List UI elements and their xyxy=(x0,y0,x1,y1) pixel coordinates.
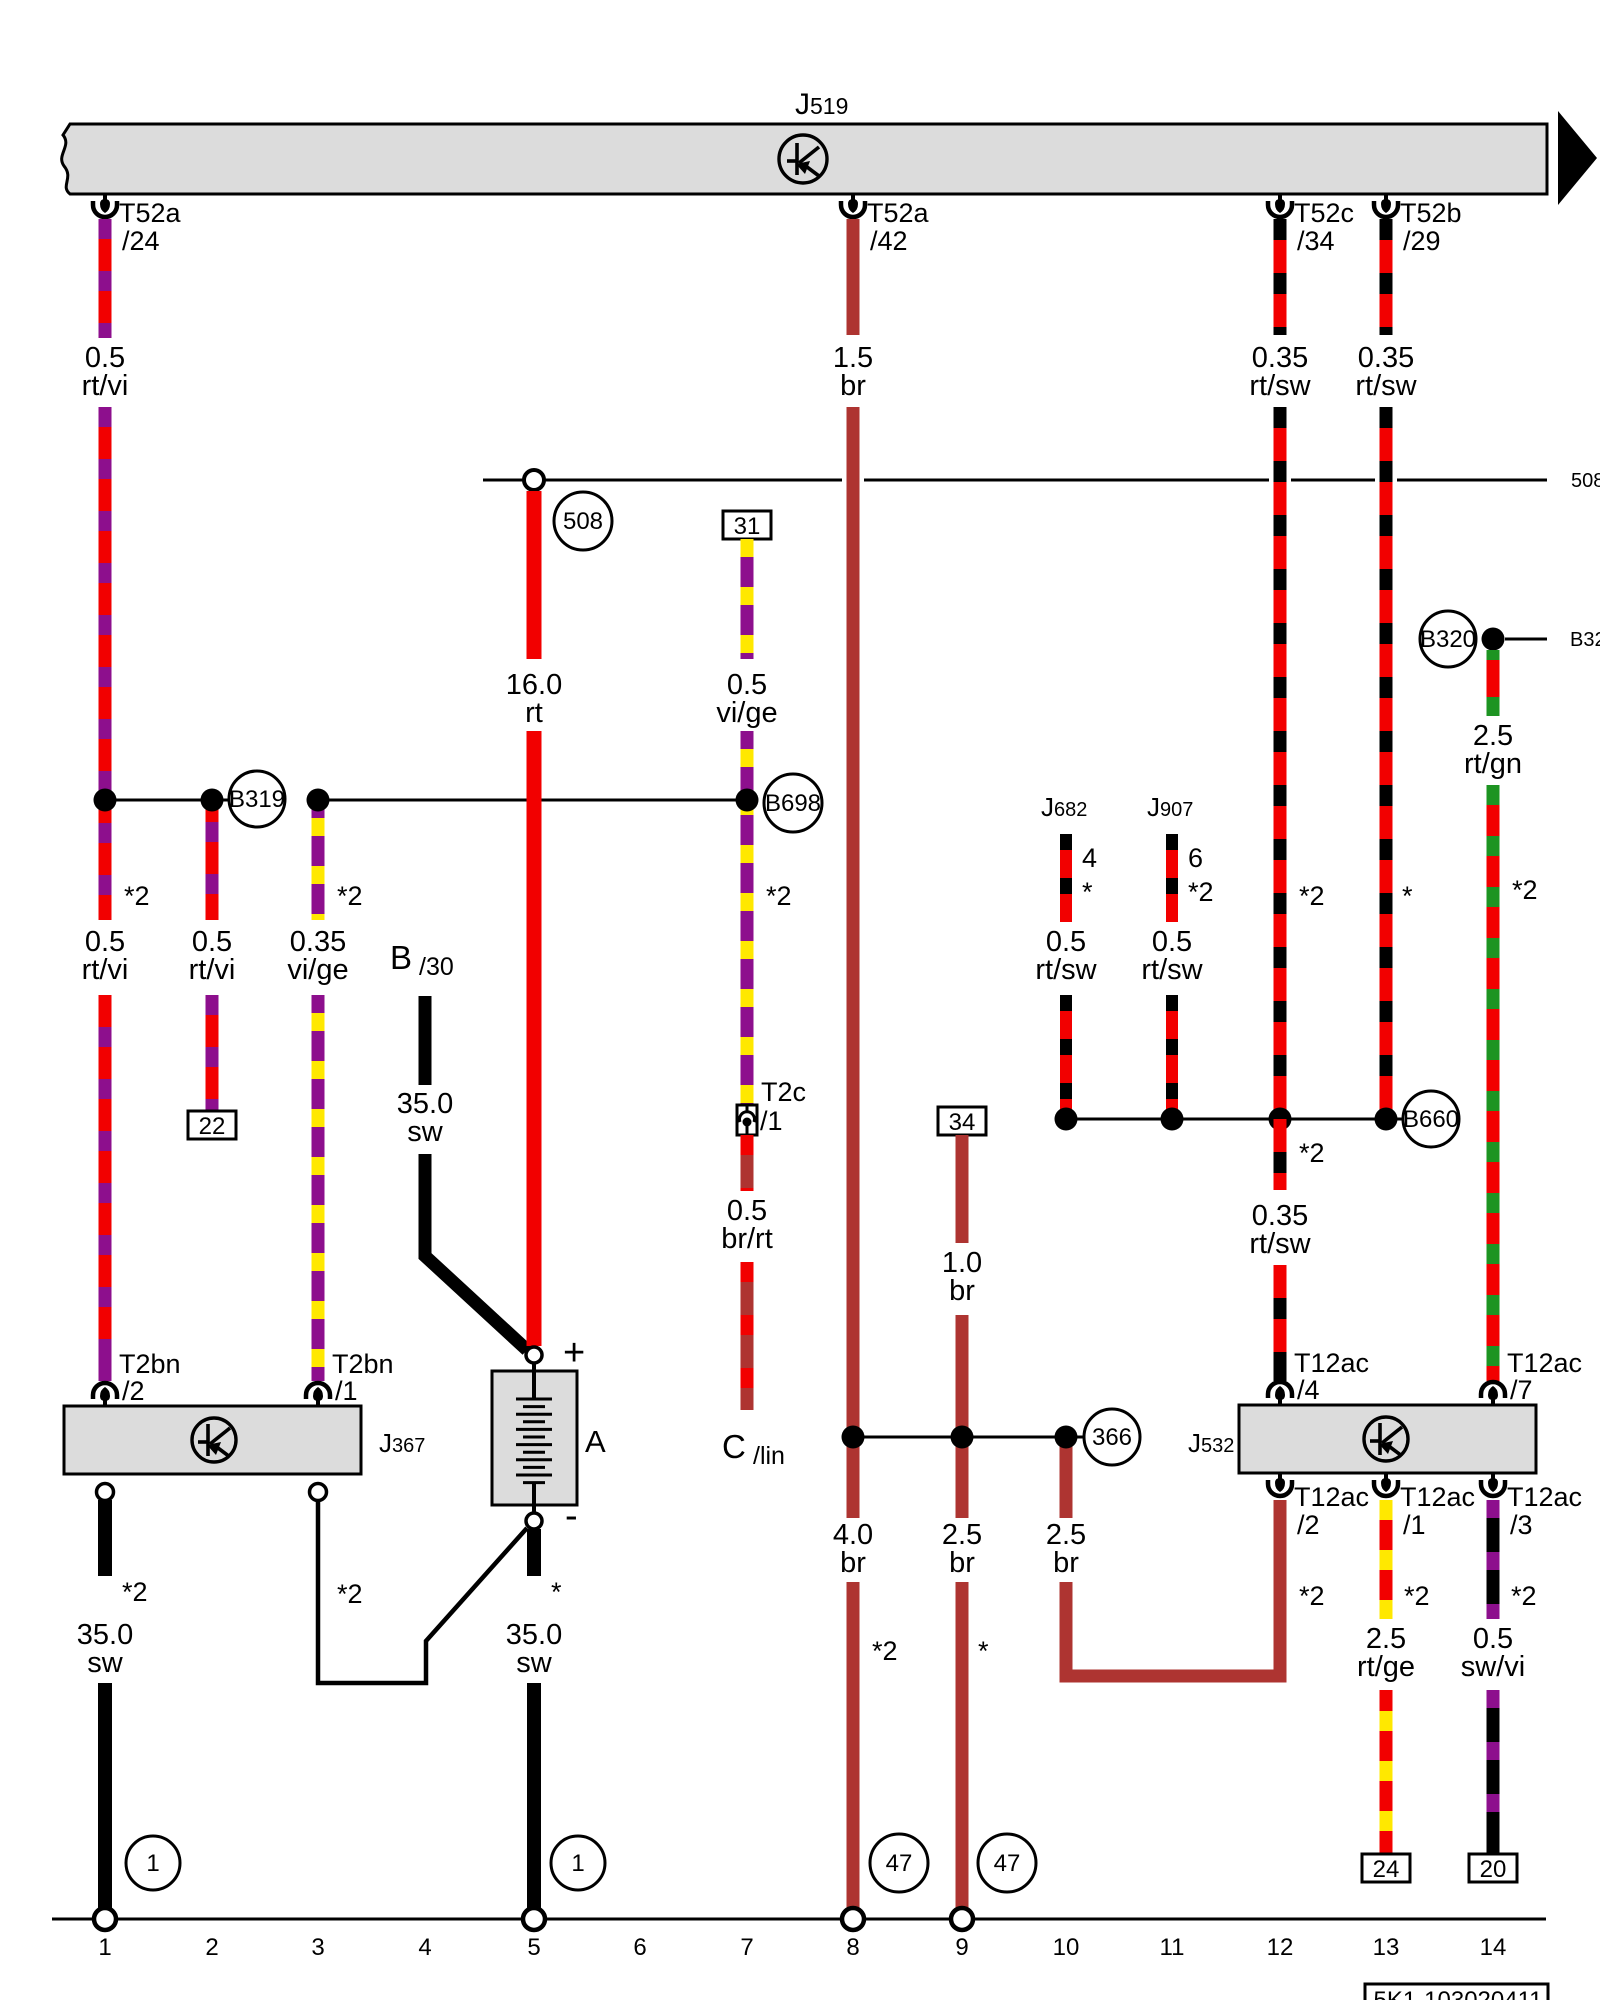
svg-text:31: 31 xyxy=(734,513,761,540)
wire rt/sw J907 b xyxy=(1166,995,1178,1119)
wire rt 16.0 col5 b xyxy=(527,731,542,1346)
svg-text:366: 366 xyxy=(1092,1424,1132,1451)
ground label circle 47 (b) xyxy=(978,1834,1036,1892)
svg-text:*2: *2 xyxy=(122,1577,148,1607)
wire br col8 c xyxy=(847,1582,860,1908)
svg-text:508: 508 xyxy=(1571,470,1600,492)
wire rt/ge col13 a xyxy=(1380,1500,1393,1619)
node B660 junction col12 junction dot xyxy=(1269,1108,1292,1131)
svg-text:*: * xyxy=(551,1577,562,1607)
svg-text:rt/vi: rt/vi xyxy=(82,954,129,986)
battery A xyxy=(492,1332,606,1537)
connector T2bn/2 T2bn/2 xyxy=(93,1349,181,1406)
wire rt/sw J682 a xyxy=(1060,834,1072,922)
ground label circle 1 (mid) xyxy=(551,1836,605,1890)
wire sw col1 below J367 a xyxy=(98,1500,112,1576)
ground rail xyxy=(52,1918,1546,1921)
wire sw/vi col14 a xyxy=(1487,1500,1500,1619)
terminal box 20 xyxy=(1469,1854,1517,1883)
wire size/colour label 2.5 rt/gn xyxy=(1464,720,1522,780)
ground label circle 1 (left) xyxy=(126,1836,180,1890)
svg-text:/29: /29 xyxy=(1403,226,1441,256)
svg-text:sw: sw xyxy=(516,1647,553,1679)
svg-text:rt/sw: rt/sw xyxy=(1035,954,1097,986)
terminal box 24 xyxy=(1362,1854,1410,1883)
svg-text:/34: /34 xyxy=(1297,226,1335,256)
node label circle B319 xyxy=(229,771,285,827)
svg-text:*2: *2 xyxy=(1404,1581,1430,1611)
wire size/colour label 35.0 sw xyxy=(397,1088,453,1148)
wire rt/sw J682 b xyxy=(1060,995,1072,1119)
wire rt/vi col2 a xyxy=(206,800,219,920)
node 366 junction col8 junction dot xyxy=(842,1426,865,1449)
svg-text:1: 1 xyxy=(571,1850,584,1877)
connector T12ac/1 T12ac/1 xyxy=(1374,1473,1475,1540)
node B terminal /30 label xyxy=(390,939,454,981)
svg-text:10: 10 xyxy=(1053,1934,1080,1961)
svg-text:A: A xyxy=(585,1424,606,1459)
svg-text:T12ac: T12ac xyxy=(1400,1482,1475,1512)
wire sw col5 below battery a xyxy=(527,1529,541,1576)
svg-text:24: 24 xyxy=(1373,1856,1400,1883)
svg-text:4: 4 xyxy=(418,1934,431,1961)
svg-text:1: 1 xyxy=(146,1850,159,1877)
node label circle B698 xyxy=(764,774,822,832)
terminal box 34 xyxy=(938,1107,986,1136)
svg-text:13: 13 xyxy=(1373,1934,1400,1961)
wire vi/ge col3 b xyxy=(312,995,325,1381)
svg-text:T52b: T52b xyxy=(1400,198,1462,228)
svg-text:T12ac: T12ac xyxy=(1294,1482,1369,1512)
svg-text:22: 22 xyxy=(199,1113,226,1140)
svg-text:/lin: /lin xyxy=(753,1442,785,1470)
svg-text:7: 7 xyxy=(740,1934,753,1961)
svg-text:/1: /1 xyxy=(335,1376,358,1406)
svg-text:rt/vi: rt/vi xyxy=(189,954,236,986)
wire rt/vi col1 c end stripe xyxy=(99,1359,112,1381)
wire size/colour label 1.0 br xyxy=(942,1247,982,1307)
wire rt/vi col1 b xyxy=(99,407,112,920)
svg-text:11: 11 xyxy=(1160,1934,1185,1961)
svg-text:T52a: T52a xyxy=(867,198,930,228)
svg-text:rt: rt xyxy=(525,697,543,729)
node B698 junction junction dot xyxy=(736,789,759,812)
svg-text:/4: /4 xyxy=(1297,1375,1320,1405)
connector T12ac/7 T12ac/7 xyxy=(1481,1348,1582,1405)
bus continuation arrow xyxy=(1558,111,1597,205)
wire size/colour label 0.35 vi/ge xyxy=(287,926,348,986)
svg-text:47: 47 xyxy=(994,1850,1021,1877)
node line 366 xyxy=(853,1436,1084,1439)
wire sw col4 a (35.0 B/30) xyxy=(419,996,432,1085)
J367 bottom pin (right) xyxy=(310,1484,327,1501)
connector T52b/29 T52b/29 xyxy=(1374,194,1462,256)
svg-text:14: 14 xyxy=(1480,1934,1507,1961)
svg-text:B320: B320 xyxy=(1570,629,1600,651)
svg-text:rt/sw: rt/sw xyxy=(1355,370,1417,402)
node C terminal /lin label xyxy=(722,1428,785,1470)
svg-text:6: 6 xyxy=(633,1934,646,1961)
svg-text:9: 9 xyxy=(955,1934,968,1961)
ground point 1 xyxy=(94,1908,116,1930)
svg-text:/24: /24 xyxy=(122,226,160,256)
wire br col9 b xyxy=(956,1315,969,1518)
connector T12ac/3 T12ac/3 xyxy=(1481,1473,1582,1540)
svg-text:T2c: T2c xyxy=(761,1077,806,1107)
svg-text:T52c: T52c xyxy=(1294,198,1354,228)
wire size/colour label 2.5 br xyxy=(1046,1519,1086,1579)
node B320 junction junction dot xyxy=(1482,628,1505,651)
svg-text:br/rt: br/rt xyxy=(721,1223,773,1255)
svg-text:-: - xyxy=(565,1495,578,1537)
wire br col9 c xyxy=(956,1582,969,1908)
wire vi/ge col7 a xyxy=(741,539,754,659)
svg-text:br: br xyxy=(1053,1547,1079,1579)
svg-text:sw/vi: sw/vi xyxy=(1461,1651,1525,1683)
svg-text:*2: *2 xyxy=(766,881,792,911)
wire br col8 a (1.5) xyxy=(847,219,860,335)
svg-text:/7: /7 xyxy=(1510,1375,1533,1405)
wire sw col4 b with bend to battery positive xyxy=(425,1154,527,1350)
svg-text:sw: sw xyxy=(87,1647,124,1679)
wire sw col1 below J367 b xyxy=(98,1683,112,1908)
J367 bottom pin (left) xyxy=(97,1484,114,1501)
node B319 tap col1 junction dot xyxy=(94,789,117,812)
wire size/colour label 0.5 rt/vi xyxy=(82,342,129,402)
svg-text:rt/sw: rt/sw xyxy=(1249,1228,1311,1260)
svg-text:/3: /3 xyxy=(1510,1510,1533,1540)
inline connector T2c/1 xyxy=(737,1077,806,1136)
svg-text:*2: *2 xyxy=(1188,877,1214,907)
connector T52a/24 T52a/24 xyxy=(93,194,182,256)
wire sw/vi col14 b xyxy=(1487,1690,1500,1854)
svg-text:*2: *2 xyxy=(872,1636,898,1666)
svg-text:br: br xyxy=(840,1547,866,1579)
component J532 (onboard supply control module) xyxy=(1188,1405,1536,1473)
node line B660 xyxy=(1066,1118,1403,1121)
wire br col10 b L-bend to J532 xyxy=(1066,1500,1280,1676)
svg-text:T52a: T52a xyxy=(119,198,182,228)
svg-text:T12ac: T12ac xyxy=(1507,1482,1582,1512)
wire rt/sw col12 d xyxy=(1274,1265,1287,1381)
svg-text:4: 4 xyxy=(1082,843,1097,873)
node B660 tap col10 junction dot xyxy=(1055,1108,1078,1131)
wire size/colour label 0.5 rt/vi xyxy=(82,926,129,986)
wire size/colour label 0.5 rt/vi xyxy=(189,926,236,986)
node label circle 508 xyxy=(554,492,612,550)
wire size/colour label 35.0 sw xyxy=(77,1619,133,1679)
node label circle 366 xyxy=(1084,1409,1140,1465)
bus bar J519 (vehicle electrical system control module) xyxy=(62,88,1547,194)
svg-text:*2: *2 xyxy=(1299,1138,1325,1168)
node B660 tap col11 junction dot xyxy=(1161,1108,1184,1131)
wire size/colour label 0.35 rt/sw xyxy=(1249,1200,1311,1260)
svg-text:20: 20 xyxy=(1480,1856,1507,1883)
wire sw/vi col14 b end stripe xyxy=(1487,1836,1500,1854)
svg-text:rt/sw: rt/sw xyxy=(1249,370,1311,402)
ground point 1b xyxy=(523,1908,545,1930)
wire rt/gn col14 b xyxy=(1487,785,1500,1381)
svg-text:/2: /2 xyxy=(1297,1510,1320,1540)
svg-text:/1: /1 xyxy=(760,1106,783,1136)
svg-text:B660: B660 xyxy=(1403,1106,1459,1133)
wire size/colour label 2.5 br xyxy=(942,1519,982,1579)
svg-text:*2: *2 xyxy=(337,1579,363,1609)
connector T52c/34 T52c/34 xyxy=(1268,194,1354,256)
wire br/rt col7 a xyxy=(741,1135,754,1191)
svg-text:vi/ge: vi/ge xyxy=(716,697,777,729)
svg-text:47: 47 xyxy=(886,1850,913,1877)
wire rt/sw col12 c xyxy=(1274,1119,1287,1190)
svg-text:*: * xyxy=(1402,881,1413,911)
svg-text:J519: J519 xyxy=(795,88,848,121)
node line B319 xyxy=(105,799,229,802)
node line B698 xyxy=(318,799,747,802)
svg-text:rt/gn: rt/gn xyxy=(1464,748,1522,780)
svg-text:*2: *2 xyxy=(337,881,363,911)
node B660 junction col13 junction dot xyxy=(1375,1108,1398,1131)
svg-text:*2: *2 xyxy=(1512,875,1538,905)
net 508 reference line xyxy=(483,470,1600,492)
svg-text:*: * xyxy=(978,1636,989,1666)
wire rt/vi col2 b xyxy=(206,995,219,1111)
connector T12ac/4 T12ac/4 xyxy=(1268,1348,1369,1405)
wire rt/sw col12 d end stripe xyxy=(1274,1355,1287,1381)
wire size/colour label 0.35 rt/sw xyxy=(1249,342,1311,402)
node B319 tap col2 junction dot xyxy=(201,789,224,812)
node B698 tap col3 junction dot xyxy=(307,789,330,812)
svg-text:br: br xyxy=(949,1275,975,1307)
wire br col8 b xyxy=(847,407,860,1518)
wire rt/gn col14 a xyxy=(1487,650,1500,716)
svg-text:*: * xyxy=(1082,877,1093,907)
component J367 (battery monitoring control module) xyxy=(64,1406,425,1474)
svg-text:*2: *2 xyxy=(124,881,150,911)
svg-text:br: br xyxy=(840,370,866,402)
wire size/colour label 0.5 rt/sw xyxy=(1141,926,1203,986)
svg-text:B: B xyxy=(390,939,412,976)
svg-text:T12ac: T12ac xyxy=(1507,1348,1582,1378)
svg-text:8: 8 xyxy=(846,1934,859,1961)
connector T52a/42 T52a/42 xyxy=(841,194,930,256)
wire rt/vi col1 a xyxy=(99,219,112,338)
sense wire J367 to battery negative xyxy=(318,1500,527,1683)
wire br col9 a (1.0) xyxy=(956,1135,969,1243)
wire rt/ge col13 b xyxy=(1380,1690,1393,1854)
svg-text:/1: /1 xyxy=(1403,1510,1426,1540)
wire rt 16.0 col5 a xyxy=(527,491,542,659)
wire sw col5 below battery b xyxy=(527,1683,541,1908)
svg-text:rt/sw: rt/sw xyxy=(1141,954,1203,986)
svg-text:12: 12 xyxy=(1267,1934,1294,1961)
svg-text:br: br xyxy=(949,1547,975,1579)
node label circle B320 xyxy=(1420,611,1476,667)
wire size/colour label 0.5 sw/vi xyxy=(1461,1623,1525,1683)
wire br col10 a (2.5) xyxy=(1060,1437,1073,1518)
svg-text:*2: *2 xyxy=(1511,1581,1537,1611)
svg-text:6: 6 xyxy=(1188,843,1203,873)
svg-text:508: 508 xyxy=(563,508,603,535)
svg-text:2: 2 xyxy=(205,1934,218,1961)
grid column numbers xyxy=(98,1934,1506,1961)
svg-text:*2: *2 xyxy=(1299,1581,1325,1611)
svg-text:/42: /42 xyxy=(870,226,908,256)
wire size/colour label 4.0 br xyxy=(833,1519,873,1579)
wire size/colour label 0.5 rt/sw xyxy=(1035,926,1097,986)
wire size/colour label 2.5 rt/ge xyxy=(1357,1623,1415,1683)
svg-text:1: 1 xyxy=(98,1934,111,1961)
terminal box 22 xyxy=(188,1111,236,1140)
svg-text:T12ac: T12ac xyxy=(1294,1348,1369,1378)
ground point 47a xyxy=(842,1908,864,1930)
wire rt/sw col13 a xyxy=(1380,219,1393,335)
svg-text:T2bn: T2bn xyxy=(332,1349,394,1379)
node 508 tap circle xyxy=(524,470,544,490)
ground label circle 47 (a) xyxy=(870,1834,928,1892)
wire rt/sw col13 b xyxy=(1380,407,1393,1119)
wire vi/ge col7 b xyxy=(741,731,754,1105)
ground point 47b xyxy=(951,1908,973,1930)
svg-text:/2: /2 xyxy=(122,1376,145,1406)
connector T12ac/2 T12ac/2 xyxy=(1268,1473,1369,1540)
svg-text:vi/ge: vi/ge xyxy=(287,954,348,986)
wire size/colour label 1.5 br xyxy=(833,342,873,402)
wire rt/sw col12 a xyxy=(1274,219,1287,335)
wire size/colour label 16.0 rt xyxy=(506,669,562,729)
svg-text:3: 3 xyxy=(311,1934,324,1961)
node 366 junction col9 junction dot xyxy=(951,1426,974,1449)
svg-text:rt/vi: rt/vi xyxy=(82,370,129,402)
svg-text:/30: /30 xyxy=(419,953,454,981)
net B320 reference line xyxy=(1505,629,1600,651)
diagram number plate 5K1-103020411 xyxy=(1365,1984,1548,2000)
wire rt/sw col12 b xyxy=(1274,407,1287,1119)
svg-text:34: 34 xyxy=(949,1109,976,1136)
svg-text:rt/ge: rt/ge xyxy=(1357,1651,1415,1683)
terminal box 31 xyxy=(723,511,771,540)
wire size/colour label 0.5 vi/ge xyxy=(716,669,777,729)
wire rt/vi col1 c xyxy=(99,995,112,1381)
svg-text:5K1-103020411: 5K1-103020411 xyxy=(1373,1987,1542,2000)
svg-text:B698: B698 xyxy=(765,790,821,817)
svg-text:*2: *2 xyxy=(1299,881,1325,911)
svg-text:B320: B320 xyxy=(1420,626,1476,653)
node 366 junction col10 junction dot xyxy=(1055,1426,1078,1449)
wire size/colour label 35.0 sw xyxy=(506,1619,562,1679)
wire br/rt col7 b xyxy=(741,1262,754,1410)
wire size/colour label 0.35 rt/sw xyxy=(1355,342,1417,402)
svg-text:sw: sw xyxy=(407,1116,444,1148)
svg-text:B319: B319 xyxy=(229,786,285,813)
svg-text:C: C xyxy=(722,1428,746,1465)
wire size/colour label 0.5 br/rt xyxy=(721,1195,773,1255)
wire vi/ge col3 a xyxy=(312,800,325,920)
wire rt/sw J907 a xyxy=(1166,834,1178,922)
connector T2bn/1 T2bn/1 xyxy=(306,1349,394,1406)
svg-text:+: + xyxy=(563,1332,585,1374)
svg-text:T2bn: T2bn xyxy=(119,1349,181,1379)
node label circle B660 xyxy=(1403,1091,1459,1147)
svg-text:5: 5 xyxy=(527,1934,540,1961)
